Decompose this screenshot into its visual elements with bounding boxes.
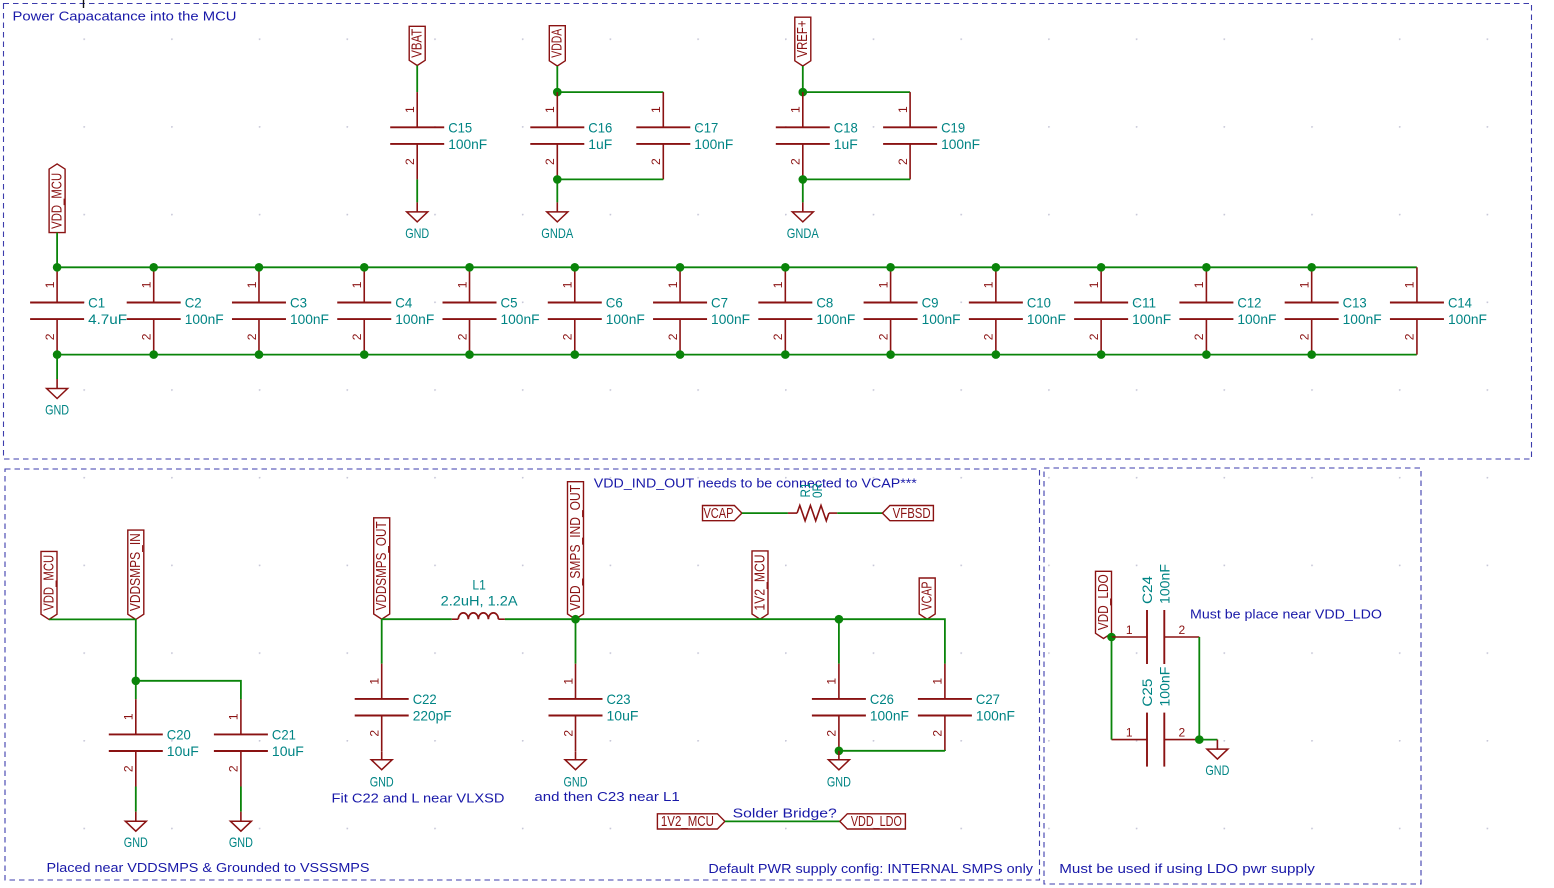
junction bottom rail C1 (53, 350, 62, 359)
capacitor C16 1uF (530, 92, 612, 179)
svg-text:C19: C19 (941, 119, 965, 135)
svg-text:2: 2 (876, 333, 890, 340)
svg-text:1: 1 (876, 281, 890, 288)
capacitor C23 10uF (549, 664, 639, 751)
note text: fit C22 (332, 791, 505, 806)
note text: default pwr (708, 861, 1033, 876)
wire C25 to GND (1199, 739, 1217, 741)
svg-text:100nF: 100nF (1132, 311, 1171, 327)
svg-text:Placed near VDDSMPS & Grounded: Placed near VDDSMPS & Grounded to VSSSMP… (47, 860, 370, 875)
capacitor C15 100nF (390, 92, 487, 179)
global label VDD_LDO bridge (840, 814, 906, 830)
svg-text:2: 2 (543, 158, 557, 165)
pin 1 lead of C24 (1112, 636, 1148, 638)
svg-text:C24: C24 (1139, 576, 1155, 604)
pin 1 lead of C10 (995, 267, 997, 302)
global label VCAP upper (919, 578, 935, 619)
global label VREF+ (795, 17, 811, 66)
svg-text:C11: C11 (1132, 295, 1156, 311)
svg-text:100nF: 100nF (1343, 311, 1382, 327)
ground stub (575, 751, 577, 760)
svg-text:1uF: 1uF (588, 136, 612, 152)
svg-text:C17: C17 (694, 119, 718, 135)
svg-text:1: 1 (122, 713, 136, 720)
global label VBAT (409, 26, 425, 65)
svg-text:C23: C23 (607, 691, 631, 707)
wire C16-C17 top link (557, 91, 663, 93)
svg-text:VDDA: VDDA (550, 29, 566, 58)
pin 1 lead of C8 (784, 267, 786, 302)
pin 1 lead of C19 (909, 92, 911, 127)
plates of C24 (1146, 610, 1148, 664)
ground triangle (125, 821, 146, 831)
svg-text:VDD_SMPS_IND_OUT: VDD_SMPS_IND_OUT (568, 485, 584, 611)
wire C16-C17 bottom link (557, 178, 663, 180)
pin 1 lead of C18 (802, 92, 804, 127)
junction VDD_LDO (1107, 633, 1116, 642)
capacitor C20 10uF (109, 699, 199, 786)
pin 1 lead of C11 (1100, 267, 1102, 302)
svg-text:C8: C8 (816, 295, 833, 311)
capacitor C3 100nF (232, 267, 329, 354)
pin 2 lead of C17 (662, 144, 664, 180)
pin 2 lead of C26 (838, 716, 840, 752)
svg-text:2.2uH, 1.2A: 2.2uH, 1.2A (441, 592, 519, 608)
pin 2 lead of C15 (416, 144, 418, 180)
plates of C17 (636, 126, 690, 128)
global label VDD_LDO ldo (1096, 571, 1112, 638)
note text: near VDD_LDO (1190, 607, 1382, 622)
capacitor C11 100nF (1074, 267, 1171, 354)
svg-text:C10: C10 (1027, 295, 1051, 311)
svg-text:2: 2 (403, 158, 417, 165)
svg-text:2: 2 (122, 765, 136, 772)
plates of C8 (758, 302, 812, 304)
svg-text:2: 2 (1087, 333, 1101, 340)
ground below C20 (124, 812, 148, 851)
global label VDD_MCU top (49, 164, 65, 233)
svg-text:0R: 0R (809, 483, 825, 498)
pin 2 lead of C20 (135, 751, 137, 787)
capacitor C5 100nF (443, 267, 540, 354)
pin 1 lead of C13 (1311, 267, 1313, 302)
plates of C18 (776, 126, 830, 128)
wire junction to C21 (136, 681, 241, 699)
svg-text:GND: GND (564, 774, 588, 790)
junction top rail C5 (465, 263, 474, 272)
svg-text:2: 2 (1297, 333, 1311, 340)
svg-text:1: 1 (666, 281, 680, 288)
plates of C1 (30, 302, 84, 304)
note text: must be used (1059, 861, 1315, 876)
plates of C21 (214, 733, 268, 735)
junction 1V2 rail (835, 615, 844, 624)
pin 2 lead of C21 (240, 751, 242, 787)
wire C20 to GND (135, 787, 137, 812)
svg-text:2: 2 (666, 333, 680, 340)
ground triangle (565, 760, 586, 770)
svg-text:C18: C18 (834, 119, 858, 135)
pin 1 lead of C1 (56, 267, 58, 302)
dashed sheet box: SMPS section (5, 469, 1040, 880)
global label 1V2_MCU bridge (657, 814, 725, 830)
pin leads of L1 (452, 618, 459, 620)
ground stub (416, 202, 418, 212)
global label VDDSMPS_OUT (374, 518, 390, 619)
svg-text:GNDA: GNDA (541, 225, 574, 241)
capacitor C14 100nF (1390, 267, 1487, 354)
svg-text:2: 2 (825, 730, 839, 737)
ground stub (802, 202, 804, 212)
ground triangle (230, 821, 251, 831)
svg-text:2: 2 (1178, 725, 1185, 739)
pin 2 lead of C25 (1164, 739, 1199, 741)
svg-text:1: 1 (649, 106, 663, 113)
svg-text:C15: C15 (448, 119, 472, 135)
junction top rail C11 (1097, 263, 1106, 272)
svg-text:VDD_LDO: VDD_LDO (851, 814, 902, 830)
sheet border tick (83, 0, 85, 8)
svg-text:1: 1 (771, 281, 785, 288)
capacitor C2 100nF (127, 267, 224, 354)
svg-text:L1: L1 (472, 577, 486, 593)
wire junction down to C26 (838, 619, 840, 664)
ground below rail (45, 379, 69, 418)
wire main rail to VCAP corner (576, 619, 945, 664)
plates of C25 (1146, 713, 1148, 767)
junction top rail C10 (992, 263, 1001, 272)
plates of C7 (653, 302, 707, 304)
wire top rail VDD_MCU (57, 266, 1417, 268)
plates of C14 (1390, 302, 1444, 304)
capacitor C8 100nF (758, 267, 855, 354)
svg-text:Solder Bridge?: Solder Bridge? (733, 806, 837, 821)
pin 1 lead of C14 (1416, 267, 1418, 302)
svg-text:1: 1 (931, 678, 945, 685)
plates of C13 (1285, 302, 1339, 304)
pin 1 lead of C9 (890, 267, 892, 302)
svg-text:100nF: 100nF (1156, 564, 1172, 604)
svg-text:100nF: 100nF (395, 311, 434, 327)
svg-text:2: 2 (140, 333, 154, 340)
pin 1 lead of C17 (662, 92, 664, 127)
svg-text:Must be used if using LDO pwr: Must be used if using LDO pwr supply (1059, 861, 1315, 876)
capacitor C21 10uF (214, 699, 304, 786)
svg-text:VBAT: VBAT (410, 29, 426, 58)
junction top rail C4 (360, 263, 369, 272)
svg-text:100nF: 100nF (448, 136, 487, 152)
svg-text:1: 1 (561, 281, 575, 288)
pin 2 lead of C14 (1416, 319, 1418, 355)
capacitor C17 100nF (636, 92, 733, 179)
svg-text:2: 2 (771, 333, 785, 340)
svg-text:VREF+: VREF+ (795, 21, 811, 58)
junction GNDA 1 (553, 175, 562, 184)
pin 1 lead of C20 (135, 699, 137, 734)
pin 1 lead of C25 (1112, 739, 1148, 741)
svg-text:4.7uF: 4.7uF (88, 311, 127, 327)
svg-text:2: 2 (561, 333, 575, 340)
wire VDDSMPS_OUT down to C22 (381, 619, 383, 664)
pin 2 lead of C12 (1205, 319, 1207, 355)
ground triangle (47, 389, 68, 399)
note text: placed near (47, 860, 370, 875)
wire C26-C27 bottom link (839, 750, 945, 752)
svg-text:100nF: 100nF (1448, 311, 1487, 327)
junction top rail C12 (1202, 263, 1211, 272)
junction top rail C13 (1307, 263, 1316, 272)
svg-text:GND: GND (1205, 762, 1229, 778)
svg-text:100nF: 100nF (1237, 311, 1276, 327)
global label VCAP feedback (703, 506, 742, 522)
capacitor C10 100nF (969, 267, 1066, 354)
junction C20 (132, 677, 141, 686)
junction bottom rail C9 (886, 350, 895, 359)
svg-text:GND: GND (45, 402, 69, 418)
junction VDD_SMPS_IND_OUT (571, 615, 580, 624)
ground stub (556, 202, 558, 212)
junction top rail C3 (255, 263, 264, 272)
pin 2 lead of C10 (995, 319, 997, 355)
svg-text:100nF: 100nF (941, 136, 980, 152)
pin 1 lead of C22 (381, 664, 383, 699)
wire VDD_MCU to top rail (56, 233, 58, 268)
junction top rail C9 (886, 263, 895, 272)
svg-text:1: 1 (789, 106, 803, 113)
resistor R1 0R (788, 482, 837, 520)
svg-text:1: 1 (543, 106, 557, 113)
svg-text:2: 2 (227, 765, 241, 772)
pin 2 lead of C3 (258, 319, 260, 355)
pin 2 lead of C5 (469, 319, 471, 355)
svg-text:10uF: 10uF (167, 743, 199, 759)
ground stub (56, 379, 58, 389)
plates of C23 (549, 698, 603, 700)
ground stub (135, 812, 137, 822)
svg-text:C16: C16 (588, 119, 612, 135)
pin 2 lead of C16 (556, 144, 558, 180)
junction bottom rail C5 (465, 350, 474, 359)
svg-text:GND: GND (229, 834, 253, 850)
junction top rail C2 (149, 263, 158, 272)
note text: vdd_ind_out note (594, 475, 917, 490)
plates of C10 (969, 302, 1023, 304)
junction bottom rail C10 (992, 350, 1001, 359)
pin 2 lead of C7 (679, 319, 681, 355)
global label VFBSD (882, 506, 933, 522)
svg-text:10uF: 10uF (607, 708, 639, 724)
svg-text:C1: C1 (88, 295, 105, 311)
svg-text:1: 1 (140, 281, 154, 288)
svg-text:Must be place near VDD_LDO: Must be place near VDD_LDO (1190, 607, 1382, 622)
svg-text:2: 2 (368, 730, 382, 737)
global label VDDA (549, 26, 565, 66)
plates of C3 (232, 302, 286, 304)
svg-text:1: 1 (455, 281, 469, 288)
svg-text:VDDSMPS_IN: VDDSMPS_IN (128, 533, 144, 611)
svg-text:1: 1 (1297, 281, 1311, 288)
note text: solder bridge? (733, 806, 837, 821)
plates of C4 (337, 302, 391, 304)
global label VDD_SMPS_IND_OUT (568, 482, 584, 620)
plates of C5 (443, 302, 497, 304)
wire C18 to GNDA (802, 179, 804, 202)
global label VDDSMPS_IN (128, 530, 144, 619)
pin 1 lead of C21 (240, 699, 242, 734)
plates of C12 (1179, 302, 1233, 304)
svg-text:1: 1 (561, 678, 575, 685)
plates of C26 (812, 698, 866, 700)
junction C26 gnd (835, 747, 844, 756)
capacitor C26 100nF (812, 664, 909, 751)
svg-text:GND: GND (405, 225, 429, 241)
ground triangle (1207, 749, 1228, 759)
capacitor C19 100nF (883, 92, 980, 179)
svg-text:2: 2 (350, 333, 364, 340)
ground stub (240, 812, 242, 822)
capacitor C7 100nF (653, 267, 750, 354)
wire VBAT to C15 (416, 66, 418, 93)
junction VREF top (799, 88, 808, 97)
svg-text:C21: C21 (272, 726, 296, 742)
pin 1 lead of C26 (838, 664, 840, 699)
ground triangle (407, 212, 428, 222)
svg-text:2: 2 (245, 333, 259, 340)
svg-text:1: 1 (350, 281, 364, 288)
wire rail to GND (56, 355, 58, 379)
wire C15 to GND (416, 179, 418, 202)
pin 2 lead of C19 (909, 144, 911, 180)
ground stub (838, 751, 840, 760)
svg-text:2: 2 (789, 158, 803, 165)
capacitor C4 100nF (337, 267, 434, 354)
svg-text:2: 2 (561, 730, 575, 737)
svg-text:C20: C20 (167, 726, 191, 742)
winding arcs of L1 (458, 613, 498, 619)
pin 2 lead of C2 (153, 319, 155, 355)
svg-text:100nF: 100nF (816, 311, 855, 327)
pin 2 lead of C27 (944, 716, 946, 752)
global label 1V2_MCU upper (752, 551, 768, 619)
wire C24 to C25 right (1198, 637, 1200, 740)
capacitor C13 100nF (1285, 267, 1382, 354)
svg-text:1: 1 (403, 106, 417, 113)
plates of C27 (918, 698, 972, 700)
svg-text:2: 2 (649, 158, 663, 165)
pin 1 lead of C15 (416, 92, 418, 127)
plates of C6 (548, 302, 602, 304)
capacitor C27 100nF (918, 664, 1015, 751)
svg-text:VDDSMPS_OUT: VDDSMPS_OUT (374, 521, 390, 610)
svg-text:C9: C9 (922, 295, 939, 311)
wire junction down to C23 (575, 619, 577, 664)
svg-text:100nF: 100nF (185, 311, 224, 327)
ground stub (381, 751, 383, 760)
pin 1 lead of C27 (944, 664, 946, 699)
note text: then C23 (534, 789, 679, 804)
svg-text:2: 2 (1403, 333, 1417, 340)
plates of C16 (530, 126, 584, 128)
capacitor C1 4.7uF (30, 267, 127, 354)
wire VDD_MCU to VDDSMPS_IN (49, 618, 136, 620)
pin 1 lead of C4 (363, 267, 365, 302)
capacitor C12 100nF (1179, 267, 1276, 354)
pin 2 lead of C23 (575, 716, 577, 752)
svg-text:VDD_IND_OUT needs to be connec: VDD_IND_OUT needs to be connected to VCA… (594, 475, 917, 490)
pin 1 lead of C2 (153, 267, 155, 302)
junction bottom rail C3 (255, 350, 264, 359)
junction top rail C8 (781, 263, 790, 272)
svg-text:1: 1 (896, 106, 910, 113)
svg-text:1: 1 (982, 281, 996, 288)
capacitor C22 220pF (355, 664, 452, 751)
wire C18-C19 top link (803, 91, 910, 93)
ground below C23 (564, 751, 588, 790)
svg-text:Fit C22 and L near VLXSD: Fit C22 and L near VLXSD (332, 791, 505, 806)
svg-text:2: 2 (896, 158, 910, 165)
svg-text:100nF: 100nF (694, 136, 733, 152)
ground LDO (1205, 740, 1229, 779)
svg-text:Default PWR supply config: INT: Default PWR supply config: INTERNAL SMPS… (708, 861, 1033, 876)
svg-text:C3: C3 (290, 295, 307, 311)
svg-text:100nF: 100nF (290, 311, 329, 327)
plates of C9 (864, 302, 918, 304)
pin 1 lead of C5 (469, 267, 471, 302)
svg-text:1: 1 (227, 713, 241, 720)
pin 1 lead of C23 (575, 664, 577, 699)
svg-text:and then C23 near L1: and then C23 near L1 (534, 789, 679, 804)
wire L1 to junction (505, 618, 576, 620)
capacitor C9 100nF (864, 267, 961, 354)
junction bottom rail C13 (1307, 350, 1316, 359)
pin 1 lead of C7 (679, 267, 681, 302)
pin 2 lead of C18 (802, 144, 804, 180)
ground below C15 (405, 202, 429, 241)
plates of C11 (1074, 302, 1128, 304)
junction bottom rail C8 (781, 350, 790, 359)
capacitor C24 100nF (rotated) (1112, 564, 1200, 664)
ground below C22 (370, 751, 394, 790)
svg-text:2: 2 (455, 333, 469, 340)
svg-text:100nF: 100nF (922, 311, 961, 327)
svg-text:C22: C22 (413, 691, 437, 707)
svg-text:100nF: 100nF (711, 311, 750, 327)
svg-text:VDD_LDO: VDD_LDO (1096, 574, 1112, 630)
pin 1 lead of C16 (556, 92, 558, 127)
junction top rail C6 (570, 263, 579, 272)
capacitor C18 1uF (776, 92, 858, 179)
capacitor C25 100nF (rotated) (1112, 667, 1200, 767)
svg-text:GND: GND (370, 774, 394, 790)
pin 2 lead of C11 (1100, 319, 1102, 355)
svg-text:1: 1 (368, 678, 382, 685)
wire solder bridge (725, 820, 840, 822)
svg-text:1uF: 1uF (834, 136, 858, 152)
svg-text:GND: GND (124, 834, 148, 850)
plates of C20 (109, 733, 163, 735)
ground triangle (792, 212, 813, 222)
wire bottom rail GND (57, 354, 1417, 356)
svg-text:C7: C7 (711, 295, 728, 311)
wire junction to C20 (135, 681, 137, 699)
ground below C26 (827, 751, 851, 790)
svg-text:2: 2 (43, 333, 57, 340)
svg-text:VCAP: VCAP (920, 582, 936, 611)
pin 2 lead of C4 (363, 319, 365, 355)
svg-text:C25: C25 (1139, 678, 1155, 706)
note text: section title (13, 8, 237, 23)
wire R1 to VFBSD (837, 512, 882, 514)
